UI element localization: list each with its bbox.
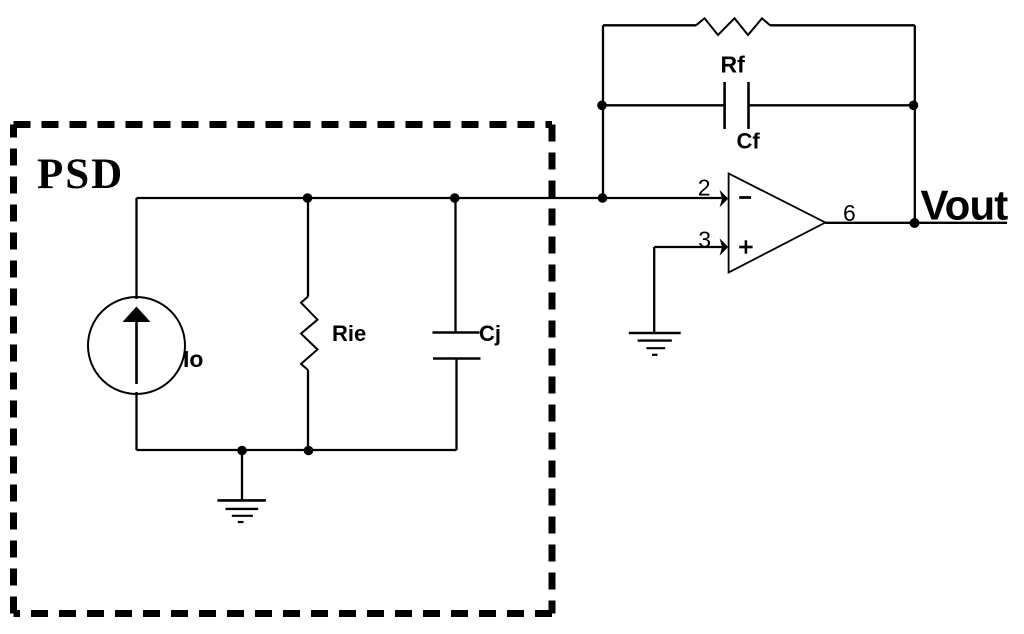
current source Io (88, 297, 185, 394)
op-amp plus sign (739, 240, 752, 253)
wire: right vertical (feedback to output) (914, 25, 916, 223)
junction dot: rail / Cj top (450, 193, 460, 203)
svg-text:Vout: Vout (921, 182, 1009, 229)
op-amp U1 (729, 174, 826, 273)
junction dot: input node (598, 193, 608, 203)
ground (op-amp pin 3) (629, 333, 681, 355)
svg-text:Rie: Rie (332, 321, 366, 346)
resistor Rf (696, 18, 770, 35)
wire: pin 3 horizontal (654, 246, 727, 248)
svg-text:Cj: Cj (479, 321, 501, 346)
svg-text:Io: Io (183, 346, 203, 372)
wire: PSD bottom rail (137, 449, 457, 451)
junction dot: bottom rail / Rie (304, 446, 314, 456)
capacitor Cf (725, 82, 749, 129)
PSD dashed box (14, 125, 553, 614)
svg-text:Rf: Rf (721, 52, 746, 78)
wire: Cf right segment (749, 104, 915, 106)
wire: vertical riser to feedback loops (602, 25, 604, 198)
junction dot: Cf right (909, 101, 919, 111)
svg-text:2: 2 (698, 174, 711, 200)
wire: current source bottom lead (135, 392, 137, 450)
wire: current source top lead (135, 198, 137, 299)
wire: pin 3 vertical to ground (653, 247, 655, 333)
svg-text:3: 3 (698, 227, 711, 253)
junction dot: rail / Rie top (303, 193, 313, 203)
pin 3 arrowhead (720, 238, 729, 255)
wire: Cf left segment (603, 104, 725, 106)
junction dot: Cf left (597, 101, 607, 111)
wire: output (825, 222, 1007, 224)
junction dot: bottom rail / ground (237, 446, 247, 456)
op-amp minus sign (739, 196, 751, 199)
pin 2 arrowhead (720, 190, 729, 207)
wire: top feedback left segment (603, 24, 696, 26)
ground (PSD) (217, 450, 266, 522)
junction dot: output node (910, 218, 920, 228)
resistor Rie (301, 198, 318, 450)
svg-text:PSD: PSD (37, 151, 124, 198)
wire: top feedback right segment (770, 24, 915, 26)
wire: input rail (top of PSD to op-amp pin 2) (137, 197, 728, 199)
capacitor Cj (433, 198, 481, 450)
svg-text:Cf: Cf (737, 128, 761, 153)
